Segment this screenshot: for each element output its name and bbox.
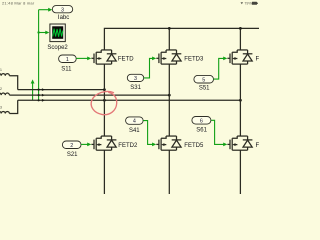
svg-text:3: 3 [0, 106, 2, 110]
inductor source phase 3 [0, 100, 18, 113]
wire: leg2 mid vertical [168, 64, 170, 136]
svg-text:S61: S61 [196, 128, 207, 134]
svg-text:3: 3 [61, 8, 64, 14]
svg-text:1: 1 [66, 57, 69, 63]
svg-text:2: 2 [0, 87, 2, 91]
wire: measurement signal vertical (green) [38, 10, 40, 101]
bus direction arrowheads [42, 88, 45, 102]
svg-text:S51: S51 [199, 85, 210, 91]
svg-text:FETD5: FETD5 [184, 143, 204, 149]
inductor terminal labels [0, 68, 2, 110]
wire: S51 to top-right FET gate [214, 58, 224, 79]
mosfet FETD2 [91, 136, 116, 150]
svg-text:6: 6 [200, 118, 203, 124]
inductor source phase 2 [0, 93, 9, 95]
bus wire phase C [18, 99, 241, 101]
svg-text:S41: S41 [129, 128, 140, 134]
wire: S11 to FETD gate [76, 57, 87, 59]
wire: S41 to FETD5 gate [143, 121, 153, 145]
measurement tap dots on buses [38, 89, 40, 102]
svg-text:S11: S11 [61, 66, 72, 72]
outport Iabc [52, 6, 72, 21]
wire: leg1 mid vertical [103, 64, 105, 136]
junction dot rail x leg2 [168, 27, 171, 30]
junction dot leg1 x phase A [103, 88, 106, 91]
svg-text:21:48 Mar 8 mar: 21:48 Mar 8 mar [2, 0, 35, 5]
wire: leg3 bottom vertical [239, 150, 241, 194]
wire: green branch to Scope2 [39, 32, 46, 34]
svg-text:2: 2 [70, 143, 73, 149]
inport S11 [59, 55, 77, 72]
mosfet FETD3 [156, 50, 181, 64]
mosfet FETD [91, 50, 116, 64]
bus wire phase B [9, 94, 169, 96]
svg-text:Scope2: Scope2 [47, 45, 68, 51]
current measurement arrow (green, up) [32, 83, 34, 100]
red annotation circle around error node [91, 91, 117, 114]
wire: green to Iabc outport [39, 9, 49, 11]
wire: leg1 bottom vertical [103, 150, 105, 194]
status battery indicator top-right [241, 2, 259, 6]
svg-text:5: 5 [202, 77, 205, 83]
inport S51 [194, 75, 214, 91]
junction dot leg2 x phase B [168, 94, 171, 97]
scope block Scope2 [47, 24, 68, 51]
svg-text:FE: FE [256, 57, 260, 63]
mosfet bottom-right (label clipped) [227, 136, 252, 150]
wire: leg3 drain stub [239, 28, 241, 50]
junction dot leg3 x phase C [239, 99, 242, 102]
junction dot leg1 x phase C (circled error node) [103, 99, 106, 102]
wire: leg2 drain stub [168, 28, 170, 50]
wire: S31 to FETD3 gate [144, 58, 153, 78]
mosfet FETD5 [156, 136, 181, 150]
inport S31 [127, 74, 143, 91]
svg-text:3: 3 [134, 76, 137, 82]
svg-text:Iabc: Iabc [58, 15, 69, 21]
wire: S21 to FETD2 gate [81, 143, 88, 145]
svg-text:S21: S21 [67, 152, 78, 158]
inport S21 [62, 141, 81, 158]
wire: top DC rail [104, 28, 259, 50]
svg-text:FETD: FETD [118, 57, 134, 63]
svg-text:1: 1 [0, 68, 2, 72]
wire: S61 to bottom-right FET gate [211, 120, 224, 144]
bus wire phase A [18, 89, 105, 91]
junction dot rail x leg3 [239, 27, 242, 30]
inport S61 [192, 117, 211, 134]
inductor source phase 1 [0, 74, 18, 90]
svg-text:FETD2: FETD2 [118, 143, 138, 149]
mosfet top-right (label clipped) [227, 50, 252, 64]
svg-text:S31: S31 [130, 85, 141, 91]
svg-text:FETD3: FETD3 [184, 57, 204, 63]
svg-text:79%: 79% [244, 2, 252, 6]
svg-text:FE: FE [256, 143, 260, 149]
junction dot on green wire at scope branch [37, 31, 39, 33]
wire: leg2 bottom vertical [168, 150, 170, 194]
wire: leg3 mid vertical [239, 64, 241, 136]
inport S41 [126, 117, 144, 134]
svg-text:4: 4 [133, 119, 136, 125]
